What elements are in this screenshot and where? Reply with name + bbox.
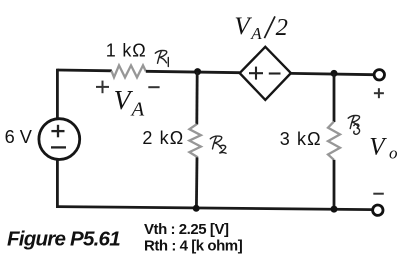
svg-text:2: 2 [276, 14, 288, 41]
resistor R3 zigzag [328, 122, 340, 160]
polarity minus of VA [148, 86, 159, 88]
dependent source U1 minus sign [269, 72, 281, 74]
svg-text:A: A [130, 98, 145, 120]
svg-text:2 kΩ: 2 kΩ [142, 128, 184, 148]
wire left vertical lower [56, 159, 59, 208]
label VA/2 slash 2 [264, 16, 275, 38]
svg-text:V: V [114, 84, 134, 115]
wire top-left horizontal [57, 69, 111, 73]
svg-text:V: V [369, 133, 387, 160]
dependent source U1 plus sign [249, 67, 263, 80]
wire left vertical upper [56, 69, 59, 120]
wire right vertical lower [333, 160, 336, 210]
label R3 designator script R3 [348, 116, 359, 135]
svg-text:3 kΩ: 3 kΩ [280, 129, 322, 149]
label R2 designator script R2 [210, 136, 226, 153]
wire bottom horizontal [56, 207, 372, 210]
svg-text:Vth : 2.25 [V]: Vth : 2.25 [V] [144, 221, 229, 238]
node A junction dot top-middle [194, 68, 201, 75]
dependent source U1 diamond VA/2 [240, 47, 291, 100]
node junction dot bottom-middle [193, 205, 200, 212]
polarity plus of VA [96, 81, 109, 94]
wire top right (diamond to terminal) [291, 73, 373, 74]
svg-text:6 V: 6 V [5, 127, 33, 147]
terminal b open circle bottom [373, 205, 383, 215]
resistor R1 zigzag [112, 65, 146, 77]
resistor R2 zigzag [189, 124, 201, 157]
svg-text:Figure P5.61: Figure P5.61 [7, 227, 120, 250]
node B junction dot top-right [331, 70, 338, 77]
svg-text:A: A [250, 24, 262, 43]
wire middle vertical upper [195, 72, 198, 125]
wire right vertical upper [333, 73, 336, 122]
svg-text:V: V [234, 13, 252, 40]
wire top middle (R1 to diamond) [146, 71, 240, 72]
voltage source V1 plus sign [51, 125, 64, 138]
polarity plus of Vo [374, 88, 384, 98]
wire middle vertical lower [195, 157, 198, 208]
svg-text:o: o [389, 143, 398, 162]
voltage source V1 6V circle [39, 119, 80, 160]
label R1 designator script R1 [155, 51, 168, 67]
polarity minus of Vo [373, 193, 384, 195]
node junction dot bottom-right [331, 206, 338, 213]
svg-text:1 kΩ: 1 kΩ [106, 41, 147, 61]
terminal a open circle top [374, 70, 384, 80]
voltage source V1 minus sign [51, 146, 66, 148]
svg-text:Rth : 4 [k ohm]: Rth : 4 [k ohm] [144, 238, 243, 255]
